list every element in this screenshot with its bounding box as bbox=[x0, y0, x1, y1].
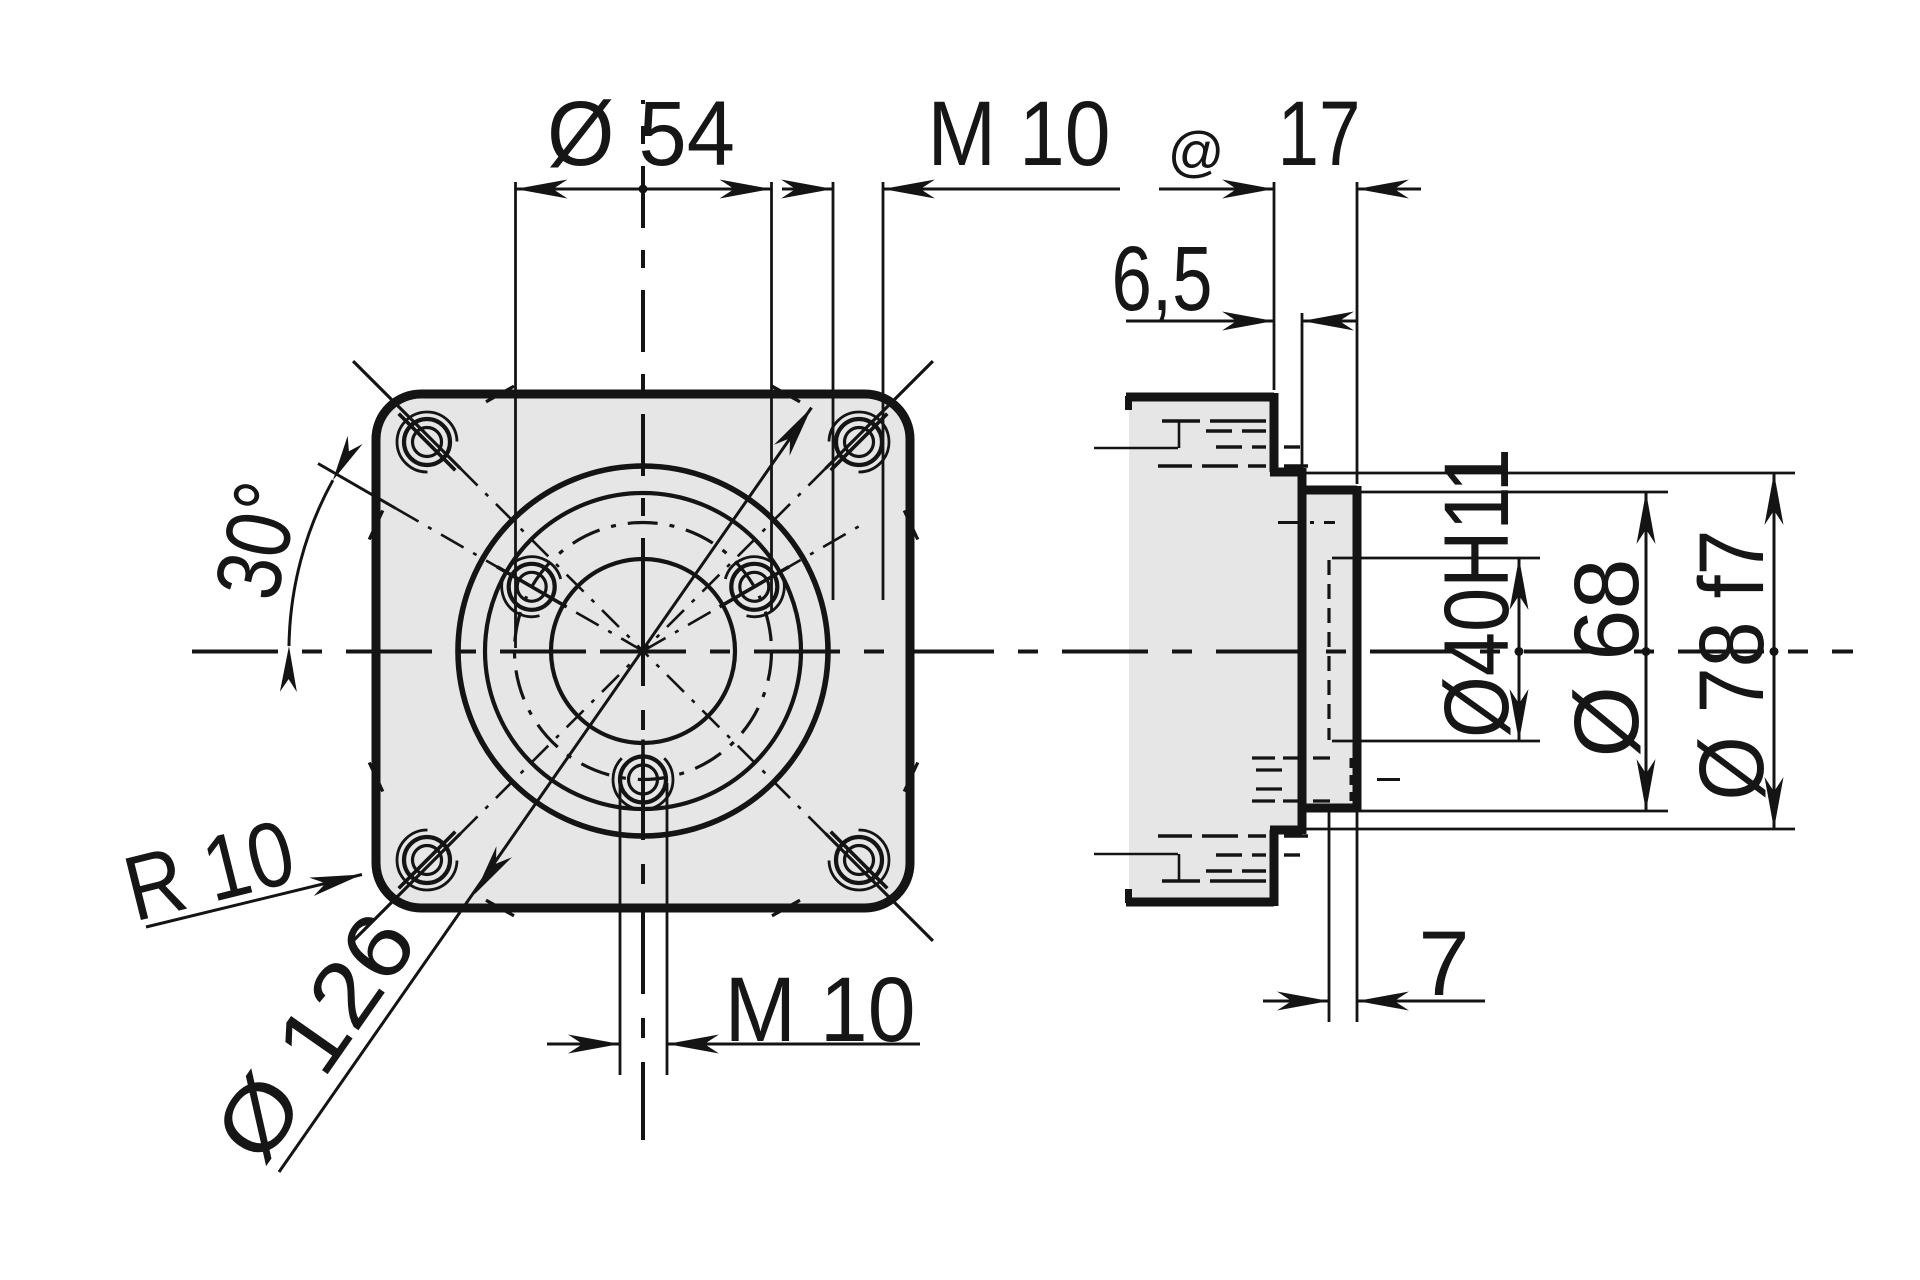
dimension D68: dimension line bbox=[1645, 492, 1648, 811]
svg-text:17: 17 bbox=[1278, 83, 1361, 185]
corner hole M10 top-right bbox=[829, 412, 889, 472]
dimension D54: extension lines bbox=[514, 182, 517, 648]
side view: collar fill bbox=[1274, 472, 1302, 830]
pitch hole M10 bottom bbox=[613, 740, 673, 820]
dimension 7: arrows outside bbox=[1263, 1000, 1329, 1003]
hidden corner hole top: dashes bbox=[1094, 421, 1308, 466]
bore circle D40 bbox=[551, 559, 735, 743]
svg-text:Ø 54: Ø 54 bbox=[547, 83, 735, 185]
pitch hole M10 upper-right bbox=[720, 557, 789, 617]
svg-text:7: 7 bbox=[1418, 913, 1469, 1015]
side view: plate right face bbox=[1270, 393, 1279, 472]
dimension D78f7: extension lines bbox=[1306, 472, 1795, 475]
bolt pitch circle D54 (dash-dot) bbox=[515, 523, 772, 780]
dimension M10 top: extension lines bbox=[832, 182, 835, 600]
side view: plate bottom edge bbox=[1126, 898, 1274, 907]
hidden bore D40: dashed lines bbox=[1327, 560, 1330, 740]
side view: boss fill bbox=[1302, 490, 1357, 808]
dimension 6,5: extension line bbox=[1301, 313, 1304, 468]
vertical centerline bbox=[641, 600, 645, 1140]
30-degree centerline through upper-left M10 hole bbox=[318, 464, 643, 652]
dimension M10 bottom: extension lines bbox=[619, 783, 622, 1075]
dimension D78f7: dimension line bbox=[1773, 473, 1776, 829]
svg-text:Ø 68: Ø 68 bbox=[1556, 559, 1658, 758]
dimension M10 bottom: arrows outside bbox=[547, 1043, 620, 1046]
diagonal centerline to top-left corner bbox=[353, 361, 643, 651]
dimension 17: extension lines bbox=[1273, 182, 1276, 390]
flange front view: rounded square plate bbox=[376, 394, 910, 908]
dimension 7: extension lines bbox=[1328, 812, 1331, 1022]
svg-text:Ø 78 f7: Ø 78 f7 bbox=[1681, 530, 1783, 801]
side view: boss right face bbox=[1353, 486, 1362, 812]
corner hole M10 top-left bbox=[397, 412, 457, 472]
side view: plate fill bbox=[1129, 397, 1274, 902]
diameter line D126 with arrows bbox=[279, 408, 812, 1172]
angular dimension 30deg: arc with arrows bbox=[289, 480, 333, 646]
leader R10 bbox=[146, 875, 362, 928]
diagonal centerline to top-right corner bbox=[643, 361, 933, 651]
horizontal centerline bbox=[600, 650, 1853, 654]
side view: collar bottom edge bbox=[1270, 826, 1302, 835]
side view: collar top edge bbox=[1270, 468, 1302, 477]
hidden pitch hole bottom in collar: dashes bbox=[1252, 758, 1400, 801]
hidden pitch circle line in collar bbox=[1278, 521, 1335, 524]
dimension 6,5: arrows outside bbox=[1126, 320, 1274, 323]
corner hole M10 bottom-right bbox=[829, 830, 889, 890]
diagonal centerline to bottom-right corner bbox=[643, 651, 933, 941]
dimension D40H11: extension lines bbox=[1332, 557, 1540, 560]
hidden corner hole bottom: dashes bbox=[1094, 836, 1308, 881]
circle D68 bbox=[485, 493, 801, 809]
dimension D40H11: dimension line bbox=[1518, 558, 1521, 741]
corner hole M10 bottom-left bbox=[397, 830, 457, 890]
bolt circle D126 dashes at border crossings bbox=[369, 386, 918, 916]
svg-text:M 10: M 10 bbox=[725, 959, 916, 1061]
circle D78 bbox=[458, 466, 828, 836]
svg-text:6,5: 6,5 bbox=[1112, 228, 1213, 330]
side view: plate top edge bbox=[1126, 393, 1274, 402]
dimension 17: arrows outside bbox=[1159, 188, 1274, 191]
svg-text:@: @ bbox=[1168, 120, 1225, 183]
svg-text:M 10: M 10 bbox=[928, 83, 1111, 185]
diagonal centerline to bottom-left corner bbox=[353, 651, 643, 941]
pitch hole M10 upper-left bbox=[497, 557, 566, 617]
dimension D54: dimension line with arrows bbox=[516, 188, 772, 191]
side view: collar right face bbox=[1298, 468, 1307, 834]
side view: boss top edge bbox=[1298, 486, 1357, 495]
30-degree centerline through upper-right M10 hole bbox=[643, 526, 860, 651]
dimension M10 top: arrows outside bbox=[782, 188, 833, 191]
side view: boss bottom edge bbox=[1298, 804, 1357, 813]
dimension D68: extension lines bbox=[1307, 491, 1668, 494]
